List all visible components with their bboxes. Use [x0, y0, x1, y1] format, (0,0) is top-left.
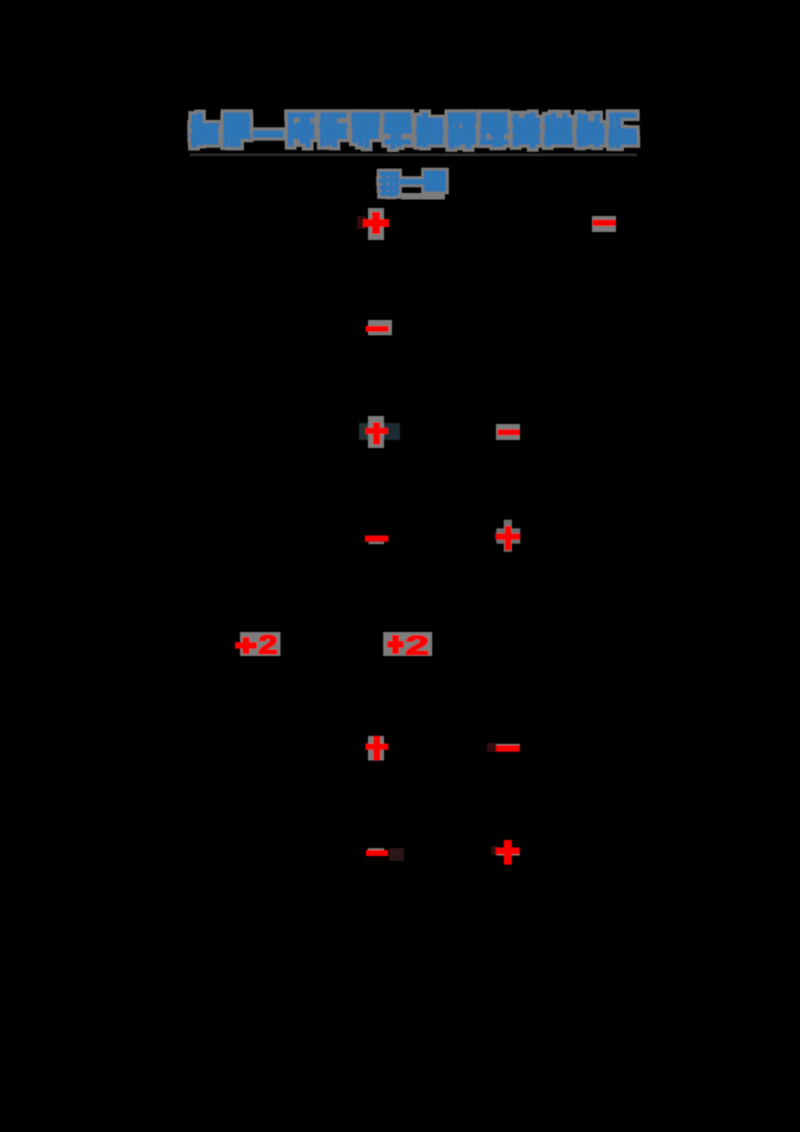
- svg-text:2: 2: [406, 631, 429, 661]
- svg-text:2: 2: [259, 631, 278, 659]
